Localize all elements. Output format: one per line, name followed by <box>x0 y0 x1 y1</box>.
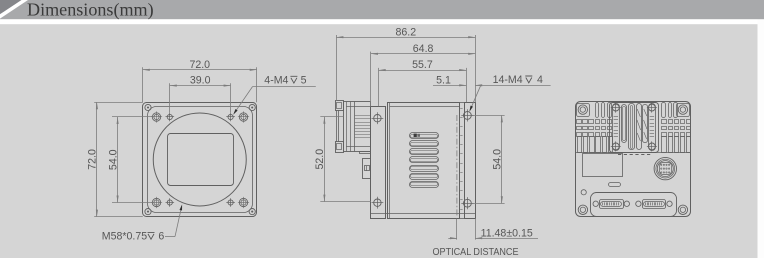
svg-text:14-M4: 14-M4 <box>493 74 523 86</box>
svg-text:72.0: 72.0 <box>87 149 99 170</box>
svg-text:72.0: 72.0 <box>189 59 210 71</box>
svg-text:54.0: 54.0 <box>107 149 119 170</box>
svg-text:52.0: 52.0 <box>314 149 326 170</box>
svg-text:11.48±0.15: 11.48±0.15 <box>481 227 533 239</box>
svg-text:54.0: 54.0 <box>492 149 504 170</box>
svg-text:39.0: 39.0 <box>190 75 211 87</box>
svg-text:M58*0.75: M58*0.75 <box>102 231 147 243</box>
svg-text:4: 4 <box>537 74 543 86</box>
svg-text:86.2: 86.2 <box>395 26 416 38</box>
svg-text:64.8: 64.8 <box>413 43 434 55</box>
svg-text:6: 6 <box>158 231 164 243</box>
svg-text:OPTICAL DISTANCE: OPTICAL DISTANCE <box>433 247 519 258</box>
svg-text:5: 5 <box>301 75 307 87</box>
svg-text:Dimensions(mm): Dimensions(mm) <box>27 0 154 20</box>
svg-text:5.1: 5.1 <box>436 74 451 86</box>
svg-text:55.7: 55.7 <box>412 59 433 71</box>
svg-text:4-M4: 4-M4 <box>264 75 288 87</box>
